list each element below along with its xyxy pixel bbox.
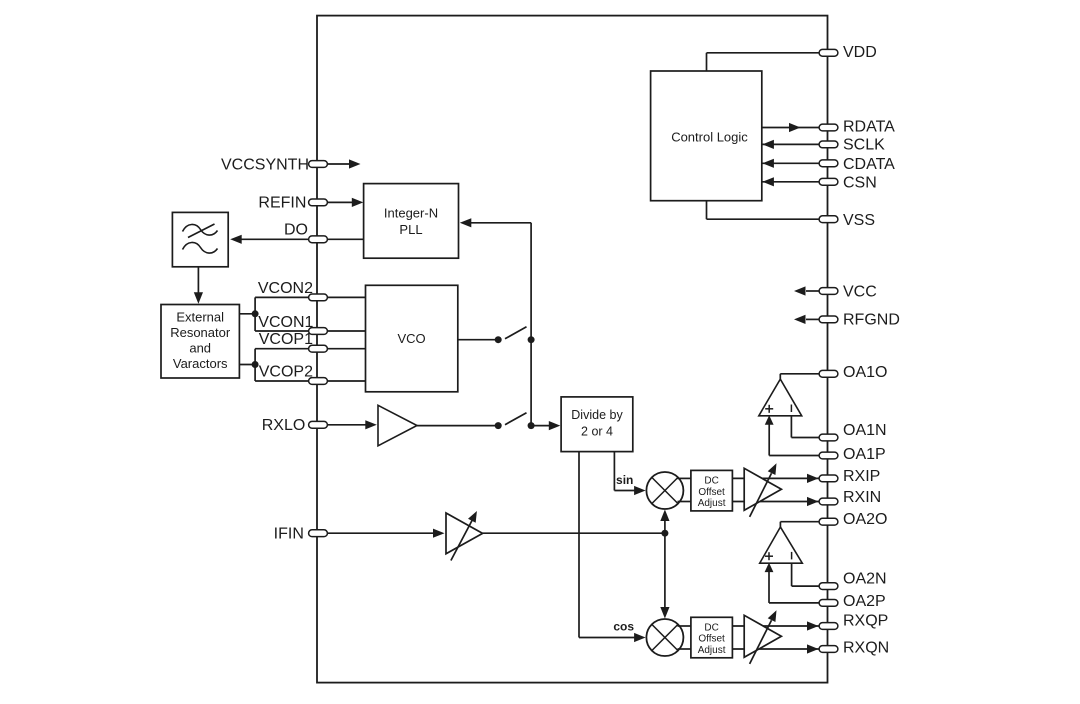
svg-text:RXIN: RXIN xyxy=(843,489,881,506)
svg-text:Control Logic: Control Logic xyxy=(671,129,748,144)
svg-text:VDD: VDD xyxy=(843,44,877,61)
mixer Q (cos) xyxy=(646,619,683,656)
pin SCLK xyxy=(819,141,838,148)
wire OA2P net with arrow xyxy=(768,572,770,603)
Q output variable gain amplifier xyxy=(744,615,781,657)
wire RXIN with arrow xyxy=(732,501,819,503)
pin VCCSYNTH xyxy=(309,161,328,168)
pin OA2O xyxy=(819,518,838,525)
arrowhead RXIN xyxy=(807,497,819,506)
pin OA1P xyxy=(819,452,838,459)
wire IF to mixers junction xyxy=(482,532,665,534)
I amplifier gain arrow xyxy=(750,473,772,517)
IF amplifier gain arrow xyxy=(451,519,473,561)
loop filter block xyxy=(172,212,228,266)
svg-text:VCC: VCC xyxy=(843,283,877,300)
junction VCO switch input xyxy=(495,336,502,343)
svg-text:External: External xyxy=(176,310,224,325)
svg-text:VCON1: VCON1 xyxy=(258,314,313,331)
pin REFIN xyxy=(309,199,328,206)
wire CSN with arrow xyxy=(762,181,819,183)
DC offset adjust block I xyxy=(691,470,733,511)
svg-text:cos: cos xyxy=(613,620,634,634)
pin RXQN xyxy=(819,646,838,653)
pin CDATA xyxy=(819,160,838,167)
svg-text:OA1P: OA1P xyxy=(843,446,886,463)
svg-text:VSS: VSS xyxy=(843,212,875,229)
external resonator and varactors block xyxy=(161,305,239,379)
svg-text:VCON2: VCON2 xyxy=(258,280,313,297)
svg-text:Offset: Offset xyxy=(698,634,725,645)
wire IF to I-mixer with arrow xyxy=(664,516,666,533)
wire OA1N net xyxy=(790,416,792,438)
pin VCOP2 xyxy=(309,378,328,385)
svg-text:OA1N: OA1N xyxy=(843,422,887,439)
wire VCOP1 net xyxy=(255,348,365,350)
svg-text:RXQP: RXQP xyxy=(843,612,888,629)
op-amp U3 plus input arrowhead xyxy=(765,563,774,573)
svg-text:Adjust: Adjust xyxy=(698,498,726,509)
svg-text:RXLO: RXLO xyxy=(262,417,306,434)
DC offset adjust block Q xyxy=(691,617,733,658)
svg-text:CSN: CSN xyxy=(843,175,877,192)
svg-text:Integer-N: Integer-N xyxy=(384,206,438,221)
wire REFIN with arrow xyxy=(327,201,353,203)
mixer I (sin) xyxy=(646,472,683,509)
svg-text:RXQN: RXQN xyxy=(843,639,889,656)
pin DO xyxy=(309,236,328,243)
wire OA1P net with arrow xyxy=(768,424,770,456)
wire OA2N net xyxy=(791,563,793,586)
pin RDATA xyxy=(819,124,838,131)
integer-N PLL block xyxy=(364,184,459,259)
svg-text:and: and xyxy=(189,341,211,356)
op-amp U2 plus input arrowhead xyxy=(765,415,774,425)
svg-text:Offset: Offset xyxy=(698,487,725,498)
svg-text:DC: DC xyxy=(704,476,718,487)
wire PLL feedback with arrow xyxy=(463,222,531,224)
junction IF split node xyxy=(661,530,668,537)
wire VCON2 net xyxy=(255,296,365,298)
svg-text:VCOP2: VCOP2 xyxy=(259,364,313,381)
wire OA2O net xyxy=(779,522,781,527)
switch S2 arm xyxy=(505,413,527,425)
pin RXQP xyxy=(819,623,838,630)
pin OA2P xyxy=(819,600,838,607)
LO buffer amplifier xyxy=(378,405,417,446)
op-amp U2 triangle xyxy=(759,379,802,416)
wire resonator stub to VCOP1/VCOP2 xyxy=(239,364,255,366)
svg-text:PLL: PLL xyxy=(399,222,422,237)
I output variable gain amplifier xyxy=(744,468,781,510)
chip boundary outline xyxy=(317,16,828,683)
junction resonator-VCOP xyxy=(252,361,259,368)
wire switch node to divider with arrow xyxy=(531,425,550,427)
op-amp U2 plus input sign xyxy=(765,408,773,410)
svg-text:sin: sin xyxy=(616,473,633,487)
pin RXLO xyxy=(309,421,328,428)
wire VCO output xyxy=(458,339,498,341)
svg-text:REFIN: REFIN xyxy=(258,195,306,212)
svg-text:RXIP: RXIP xyxy=(843,468,880,485)
op-amp U3 plus input sign xyxy=(765,555,773,557)
pin IFIN xyxy=(309,530,328,537)
wire VDD net xyxy=(706,53,708,71)
wire IF to Q-mixer with arrow xyxy=(664,533,666,612)
pin VDD xyxy=(819,49,838,56)
wire VCON1 net xyxy=(255,330,365,332)
svg-text:Adjust: Adjust xyxy=(698,645,726,656)
op-amp U3 minus input sign xyxy=(791,552,793,560)
wire filter to resonator with arrow xyxy=(197,267,199,294)
junction VCO switch output node xyxy=(528,336,535,343)
svg-text:CDATA: CDATA xyxy=(843,156,895,173)
wire VCCSYNTH with arrow xyxy=(327,163,350,165)
VCO block xyxy=(366,285,458,392)
junction RXLO switch input xyxy=(495,422,502,429)
wire RXQP with arrow xyxy=(732,625,819,627)
wire divider sin output with arrow xyxy=(613,452,615,491)
wire resonator stub to VCON1/VCON2 xyxy=(239,313,255,315)
pin VCC xyxy=(819,288,838,295)
wire VCOP2 net xyxy=(255,380,365,382)
svg-text:RFGND: RFGND xyxy=(843,312,900,329)
wire RFGND with arrow xyxy=(806,318,820,320)
op-amp U2 minus input sign xyxy=(790,405,792,413)
op-amp U3 triangle xyxy=(760,527,803,563)
pin VCON2 xyxy=(309,294,328,301)
wire RXLO with arrow xyxy=(327,424,367,426)
svg-text:VCOP1: VCOP1 xyxy=(259,331,313,348)
pin VCON1 xyxy=(309,328,328,335)
wire IFIN with arrow xyxy=(327,532,434,534)
svg-text:VCO: VCO xyxy=(398,331,426,346)
svg-text:Divide by: Divide by xyxy=(571,408,623,422)
pin RFGND xyxy=(819,316,838,323)
control logic block U1 xyxy=(651,71,762,201)
pin VCOP1 xyxy=(309,345,328,352)
svg-text:Resonator: Resonator xyxy=(170,325,231,340)
svg-text:VCCSYNTH: VCCSYNTH xyxy=(221,156,309,173)
svg-text:IFIN: IFIN xyxy=(274,526,304,543)
wire LO buffer to switch xyxy=(417,425,498,427)
filter sine symbol top with strike xyxy=(183,224,218,235)
svg-text:DO: DO xyxy=(284,222,308,239)
svg-text:OA2O: OA2O xyxy=(843,511,887,528)
svg-text:OA2P: OA2P xyxy=(843,593,886,610)
wire RXQN with arrow xyxy=(732,648,819,650)
wire OA1O net xyxy=(779,374,781,379)
filter sine symbol bottom xyxy=(183,242,218,253)
divide by 2 or 4 block xyxy=(561,397,633,452)
svg-text:SCLK: SCLK xyxy=(843,137,885,154)
pin OA2N xyxy=(819,583,838,590)
Q amplifier gain arrow xyxy=(750,620,772,664)
arrowhead RXQP xyxy=(807,621,819,630)
pin OA1O xyxy=(819,370,838,377)
wire CDATA with arrow xyxy=(762,162,819,164)
junction resonator-VCON xyxy=(252,310,259,317)
wire divider cos output with arrow xyxy=(578,452,580,638)
svg-text:OA2N: OA2N xyxy=(843,570,887,587)
switch S1 arm xyxy=(505,327,527,339)
pin VSS xyxy=(819,216,838,223)
wire DO net xyxy=(241,238,364,240)
svg-text:DC: DC xyxy=(704,623,718,634)
wire VCC with arrow xyxy=(806,290,820,292)
wire RXIP with arrow xyxy=(732,477,819,479)
wire SCLK with arrow xyxy=(762,143,819,145)
wire VSS net xyxy=(706,201,708,220)
wire mixer Q to DC offset xyxy=(678,625,691,627)
svg-text:2 or 4: 2 or 4 xyxy=(581,425,613,439)
pin OA1N xyxy=(819,434,838,441)
pin CSN xyxy=(819,178,838,185)
IF variable gain amplifier xyxy=(446,513,483,554)
wire mixer I to DC offset xyxy=(678,477,691,479)
svg-text:RDATA: RDATA xyxy=(843,118,895,135)
svg-text:OA1O: OA1O xyxy=(843,364,887,381)
svg-text:Varactors: Varactors xyxy=(173,356,228,371)
wire RDATA with arrow xyxy=(762,127,820,129)
pin RXIP xyxy=(819,475,838,482)
pin RXIN xyxy=(819,498,838,505)
arrowhead RXIP xyxy=(807,474,819,483)
junction RXLO switch output node xyxy=(528,422,535,429)
arrowhead RXQN xyxy=(807,644,819,653)
